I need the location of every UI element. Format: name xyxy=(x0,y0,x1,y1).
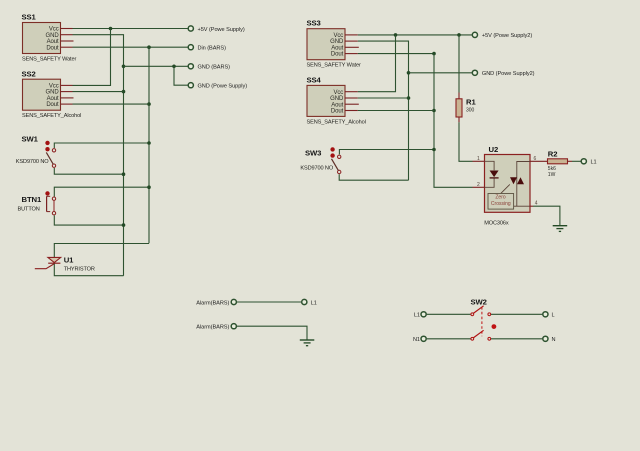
node R1 top tap xyxy=(457,33,461,37)
wire U1 anode xyxy=(54,244,149,258)
pin 6 xyxy=(530,160,548,162)
terminal +5V (Powe Supply2) xyxy=(472,32,477,37)
node SW1 top x Dout rail xyxy=(147,141,151,145)
wire SS2.Dout xyxy=(73,103,150,105)
svg-text:KSD9700 NO: KSD9700 NO xyxy=(16,159,49,165)
svg-text:2: 2 xyxy=(477,182,480,188)
node Dout rail top xyxy=(147,45,151,49)
pin 2 xyxy=(473,186,485,188)
node GND x SS2.GND xyxy=(122,90,126,94)
svg-text:L1: L1 xyxy=(591,160,597,166)
terminal L xyxy=(543,312,548,317)
LED xyxy=(490,171,499,178)
svg-text:Vcc: Vcc xyxy=(49,27,59,33)
svg-text:L1: L1 xyxy=(414,313,420,319)
wire SW2 pole B to N terminal xyxy=(491,338,542,340)
svg-text:Vcc: Vcc xyxy=(333,33,343,39)
resistor R2 xyxy=(548,150,573,178)
button BTN1 xyxy=(18,191,56,215)
node GND2 x SS4.GND xyxy=(407,96,411,100)
svg-text:Din (BARS): Din (BARS) xyxy=(198,46,227,52)
svg-text:GND: GND xyxy=(46,33,60,39)
wire U2 pin4 to ground xyxy=(533,206,560,225)
svg-text:KSD9700 NO: KSD9700 NO xyxy=(300,165,333,171)
svg-text:GND (Powe Supply): GND (Powe Supply) xyxy=(198,84,248,90)
svg-text:Dout: Dout xyxy=(331,109,344,115)
SW2 gang dashed link xyxy=(481,307,483,336)
wire SW1 top xyxy=(54,143,149,148)
wire SW3 bottom xyxy=(339,174,408,180)
triac xyxy=(510,177,517,184)
svg-text:SENS_SAFETY_Alcohol: SENS_SAFETY_Alcohol xyxy=(22,113,81,119)
svg-text:L: L xyxy=(552,313,555,319)
svg-text:Alarm(BARS): Alarm(BARS) xyxy=(196,325,229,331)
svg-text:GND (BARS): GND (BARS) xyxy=(198,65,231,71)
triac gate lead xyxy=(501,184,510,193)
terminal GND (Powe Supply2) xyxy=(472,70,477,75)
terminal L1 (alarm row1) xyxy=(302,299,307,304)
SW2 pole A contacts and lever xyxy=(471,306,491,316)
wire U1 cathode xyxy=(54,264,123,276)
node GND x GND(BARS) xyxy=(122,65,126,69)
wire SS1.GND to GND rail xyxy=(73,35,124,276)
svg-text:Dout: Dout xyxy=(331,52,344,58)
svg-text:Aout: Aout xyxy=(331,45,343,51)
svg-text:SS2: SS2 xyxy=(22,69,36,78)
svg-text:1: 1 xyxy=(477,156,480,162)
svg-text:MOC306x: MOC306x xyxy=(484,221,509,227)
sensor SS2 xyxy=(22,69,82,119)
svg-text:Dout: Dout xyxy=(46,102,59,108)
svg-text:GND: GND xyxy=(330,39,344,45)
terminal L1 (right) xyxy=(581,159,586,164)
node GND(BARS) branch xyxy=(172,65,176,69)
svg-text:300: 300 xyxy=(466,107,475,113)
svg-text:Alarm(BARS): Alarm(BARS) xyxy=(196,300,229,306)
svg-text:1W: 1W xyxy=(548,172,556,178)
zero crossing block xyxy=(488,194,514,210)
svg-text:SS1: SS1 xyxy=(22,13,37,22)
wire SS1.Dout to Din(BARS) terminal xyxy=(73,46,188,48)
wire R2 to L1 terminal xyxy=(572,160,581,162)
sensor SS1 xyxy=(22,13,77,63)
wire SW3 top xyxy=(339,150,434,155)
wire SS1.Vcc to +5V terminal xyxy=(73,28,188,30)
terminal N xyxy=(543,336,548,341)
pin 1 xyxy=(473,160,485,162)
wire L1 to SW2 pole A xyxy=(427,313,471,315)
svg-text:Zero: Zero xyxy=(495,195,506,201)
wire SS3.Vcc to +5V2 terminal xyxy=(358,34,472,36)
svg-text:6: 6 xyxy=(534,156,537,162)
optocoupler U2 xyxy=(473,145,548,227)
svg-text:U2: U2 xyxy=(489,145,499,154)
wire SS2.GND xyxy=(73,91,124,93)
wire +5V drop to SS2.Vcc xyxy=(73,29,111,86)
svg-text:SENS_SAFETY_Alcohol: SENS_SAFETY_Alcohol xyxy=(307,119,366,125)
wire R1 bottom to U2 pin1 xyxy=(459,122,473,161)
svg-text:GND (Powe Supply2): GND (Powe Supply2) xyxy=(482,71,535,77)
node Vcc2 drop xyxy=(394,33,398,37)
svg-text:+5V (Powe Supply2): +5V (Powe Supply2) xyxy=(482,33,532,39)
node BTN1 bottom x GND rail xyxy=(122,223,126,227)
node Dout2 x SS4.Dout xyxy=(432,109,436,113)
svg-text:BUTTON: BUTTON xyxy=(18,207,40,213)
svg-text:N1: N1 xyxy=(413,337,420,343)
SW2 indicator dot xyxy=(492,324,497,329)
node GND2 x terminal row xyxy=(407,71,411,75)
svg-text:GND: GND xyxy=(330,96,344,102)
svg-text:L1: L1 xyxy=(311,300,317,306)
svg-text:BTN1: BTN1 xyxy=(22,195,42,204)
svg-text:Dout: Dout xyxy=(46,45,59,51)
svg-text:4: 4 xyxy=(535,200,538,206)
wire SS3.Dout xyxy=(358,53,434,55)
svg-text:Crossing: Crossing xyxy=(491,201,511,207)
wire Dout2 rail vertical to U2 pin2 xyxy=(434,54,473,188)
LED inner wiring xyxy=(485,161,495,170)
wire branch to GND (Powe Supply) terminal xyxy=(174,66,188,85)
node SW1 bottom x GND rail xyxy=(122,172,126,176)
switch SW3 xyxy=(300,147,341,174)
svg-text:Aout: Aout xyxy=(331,102,343,108)
node Dout x SS2.Dout xyxy=(147,102,151,106)
svg-text:Aout: Aout xyxy=(47,96,59,102)
wire alarm row2 to ground xyxy=(237,326,307,340)
SW2 pole B contacts and lever xyxy=(471,330,491,340)
resistor R1 xyxy=(456,35,476,122)
terminal +5V (Powe Supply) xyxy=(188,26,193,31)
sensor SS3 xyxy=(307,19,361,69)
node SW3 top x Dout2 rail xyxy=(432,148,436,152)
svg-text:N: N xyxy=(552,337,556,343)
sensor SS4 xyxy=(307,76,366,126)
ground (U2 pin4) xyxy=(553,226,568,232)
pin 4 xyxy=(530,205,534,207)
svg-text:SENS_SAFETY Water: SENS_SAFETY Water xyxy=(22,56,76,62)
wire BTN1 bottom xyxy=(54,215,123,225)
wire GND(BARS) row xyxy=(124,65,188,67)
terminal Din (BARS) xyxy=(188,45,193,50)
svg-text:SW2: SW2 xyxy=(471,298,487,307)
svg-text:THYRISTOR: THYRISTOR xyxy=(64,267,95,273)
node BTN1 top x Dout rail xyxy=(147,185,151,189)
svg-text:SS3: SS3 xyxy=(307,19,321,28)
wire BTN1 top xyxy=(54,187,149,196)
node on +5V rail xyxy=(109,27,113,31)
node Dout2 rail top xyxy=(432,52,436,56)
svg-text:SS4: SS4 xyxy=(307,76,322,85)
wire N1 to SW2 pole B xyxy=(427,338,471,340)
wire GND2 terminal row xyxy=(409,72,472,74)
wire SW1 bottom xyxy=(54,168,123,174)
svg-text:R1: R1 xyxy=(466,97,476,106)
svg-text:Vcc: Vcc xyxy=(333,90,343,96)
svg-text:Vcc: Vcc xyxy=(49,84,59,90)
wire alarm row1 xyxy=(237,301,301,303)
thyristor U1 xyxy=(35,255,95,272)
svg-text:SW3: SW3 xyxy=(305,149,321,158)
switch SW1 xyxy=(16,134,56,167)
wire SS4.GND xyxy=(358,97,409,99)
triac inner wiring xyxy=(517,162,530,207)
svg-text:+5V (Powe Supply): +5V (Powe Supply) xyxy=(198,27,245,33)
svg-text:SENS_SAFETY Water: SENS_SAFETY Water xyxy=(307,63,361,69)
wire SW2 pole A to L terminal xyxy=(491,313,542,315)
svg-text:GND: GND xyxy=(46,90,60,96)
svg-text:Aout: Aout xyxy=(47,39,59,45)
wire Dout rail vertical xyxy=(148,47,150,243)
svg-text:SW1: SW1 xyxy=(22,134,39,143)
svg-text:R2: R2 xyxy=(548,150,558,159)
wire SS3.GND to GND2 rail xyxy=(358,41,409,180)
svg-text:U1: U1 xyxy=(64,255,74,264)
wire +5V2 drop to SS4.Vcc xyxy=(358,35,396,92)
terminal GND (BARS) xyxy=(188,64,193,69)
ground (alarm row2) xyxy=(300,340,315,346)
terminal GND (Powe Supply) xyxy=(188,83,193,88)
wire SS4.Dout xyxy=(358,110,434,112)
